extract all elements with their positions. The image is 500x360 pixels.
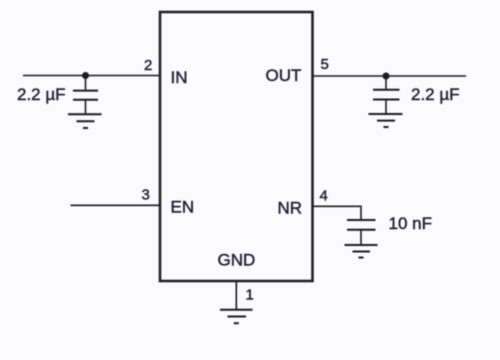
pin name OUT — [266, 66, 302, 85]
wire IN (pin 2 to input node) — [23, 75, 160, 77]
op-amp U1 (regulator IC body) — [160, 12, 313, 281]
svg-text:1: 1 — [246, 286, 254, 303]
svg-text:EN: EN — [171, 198, 195, 217]
pin name IN — [171, 68, 188, 87]
wire EN (pin 3) — [71, 204, 161, 206]
capacitor C1 2.2uF input — [73, 76, 98, 115]
ground (input cap) — [68, 114, 102, 128]
svg-text:2.2 µF: 2.2 µF — [411, 85, 460, 104]
svg-text:4: 4 — [320, 188, 328, 205]
svg-text:IN: IN — [171, 68, 188, 87]
capacitor C3 10nF noise-reduction — [347, 220, 376, 245]
svg-text:2: 2 — [144, 57, 152, 74]
pin number 1 — [246, 286, 254, 303]
pin name EN — [171, 198, 195, 217]
wire OUT (pin 5 to output node) — [313, 75, 467, 77]
pin name NR — [278, 199, 303, 218]
svg-text:GND: GND — [218, 251, 256, 270]
pin number 2 — [144, 57, 152, 74]
wire GND (pin 1 down) — [235, 281, 237, 310]
svg-text:2.2 µF: 2.2 µF — [17, 85, 66, 104]
ground (output cap) — [369, 114, 403, 127]
svg-text:OUT: OUT — [266, 66, 302, 85]
node input junction — [82, 72, 89, 79]
ground (NR cap) — [345, 245, 378, 258]
ground (GND pin) — [220, 310, 253, 324]
pin number 4 — [320, 188, 328, 205]
node output junction — [383, 73, 390, 80]
value label 2.2 uF (output) — [411, 85, 460, 104]
value label 2.2 uF (input) — [17, 85, 66, 104]
pin number 3 — [142, 187, 150, 204]
svg-text:NR: NR — [278, 199, 303, 218]
svg-text:3: 3 — [142, 187, 150, 204]
wire NR (pin 4 to C3) — [313, 206, 362, 220]
svg-text:10 nF: 10 nF — [389, 214, 432, 233]
pin number 5 — [321, 56, 329, 73]
svg-text:5: 5 — [321, 56, 329, 73]
capacitor C2 2.2uF output — [373, 76, 400, 114]
pin name GND — [218, 251, 256, 270]
value label 10 nF — [389, 214, 432, 233]
